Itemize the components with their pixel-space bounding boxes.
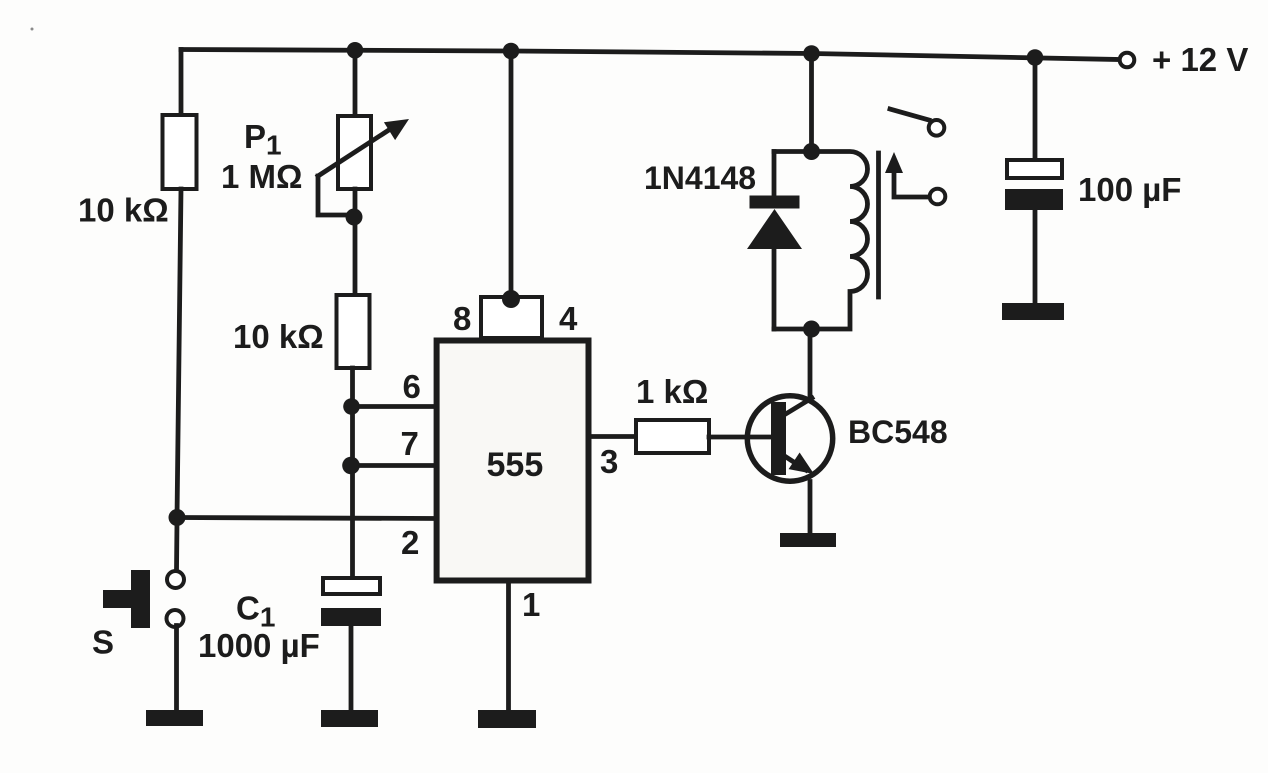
svg-text:+ 12 V: + 12 V — [1152, 41, 1248, 78]
svg-text:1N4148: 1N4148 — [644, 160, 756, 196]
svg-text:S: S — [92, 624, 114, 661]
svg-text:7: 7 — [401, 425, 419, 462]
svg-text:10 kΩ: 10 kΩ — [233, 318, 324, 355]
svg-text:100 µF: 100 µF — [1078, 171, 1181, 208]
svg-text:2: 2 — [401, 524, 419, 561]
svg-text:1 kΩ: 1 kΩ — [636, 373, 708, 410]
svg-text:P1: P1 — [244, 118, 282, 161]
svg-text:3: 3 — [600, 443, 618, 480]
svg-text:4: 4 — [559, 300, 578, 337]
svg-text:10 kΩ: 10 kΩ — [78, 192, 169, 229]
svg-text:8: 8 — [453, 300, 471, 337]
svg-text:6: 6 — [403, 368, 421, 405]
svg-text:555: 555 — [487, 446, 544, 484]
svg-text:BC548: BC548 — [848, 414, 948, 450]
svg-text:1: 1 — [522, 586, 540, 623]
svg-text:1000 µF: 1000 µF — [198, 627, 320, 664]
svg-text:1 MΩ: 1 MΩ — [221, 158, 302, 195]
